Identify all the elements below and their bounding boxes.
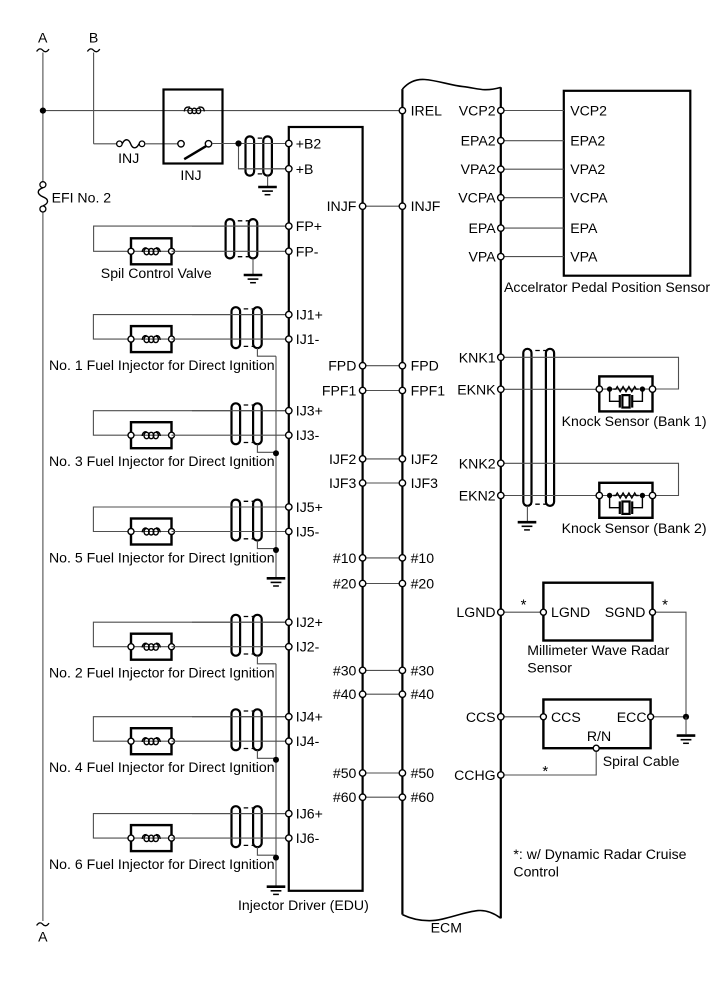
svg-text:VCP2: VCP2 bbox=[570, 103, 607, 119]
node A break squiggle (top) bbox=[37, 49, 49, 52]
injector No.5 coil bbox=[142, 528, 160, 535]
injector 2 terminal left bbox=[128, 644, 134, 650]
ground (injector shields bank1) bbox=[267, 578, 286, 586]
wire: IJ5+ loop bbox=[93, 507, 288, 532]
radar terminal SGND bbox=[650, 609, 656, 615]
ECM terminal KNK1 bbox=[498, 354, 504, 360]
svg-text:FPF1: FPF1 bbox=[411, 383, 446, 399]
noise filter FP pair bbox=[226, 219, 258, 258]
EDU terminal IJ2+ bbox=[286, 619, 292, 625]
wire: R/N to CCHG bbox=[501, 748, 596, 775]
svg-text:R/N: R/N bbox=[587, 728, 611, 744]
svg-text:EPA2: EPA2 bbox=[461, 133, 496, 149]
svg-text:LGND: LGND bbox=[551, 604, 590, 620]
injector 6 terminal left bbox=[128, 835, 134, 841]
svg-text:IJ6-: IJ6- bbox=[296, 830, 320, 846]
svg-text:ECC: ECC bbox=[617, 709, 647, 725]
Knock Sensor (Bank 2) box bbox=[599, 483, 652, 518]
wire: +B2 through filter bbox=[239, 143, 289, 145]
wire: IJ2+ loop bbox=[93, 622, 288, 647]
wire: through injector 3 bbox=[131, 434, 172, 436]
ECM terminal CCHG bbox=[498, 772, 504, 778]
svg-text:#20: #20 bbox=[411, 576, 435, 592]
junction knock sensor 2 right bbox=[640, 493, 645, 498]
svg-text:FPD: FPD bbox=[411, 358, 439, 374]
ECM terminal LGND bbox=[498, 609, 504, 615]
spiral cable terminal CCS bbox=[540, 714, 546, 720]
ECM terminal FPF1 bbox=[399, 387, 405, 393]
wire: down to ground bbox=[685, 717, 687, 734]
wire: through knock sensor 1 bbox=[599, 388, 652, 390]
wire: VCPA to pedal sensor bbox=[501, 197, 564, 199]
wire: knock shield drain bbox=[526, 506, 528, 521]
shielded cable knock sensors bbox=[523, 349, 554, 506]
svg-text:B: B bbox=[89, 30, 98, 46]
wire: IJF2 EDU to ECM bbox=[363, 458, 403, 460]
spiral cable terminal R/N bbox=[593, 745, 599, 751]
wire: harness A upper segment bbox=[42, 53, 44, 185]
EDU terminal FP+ bbox=[286, 223, 292, 229]
injector No.6 coil bbox=[142, 835, 160, 842]
svg-text:#30: #30 bbox=[333, 662, 357, 678]
svg-text:IJF3: IJF3 bbox=[411, 475, 439, 491]
fuel injector No.1 coil box bbox=[131, 326, 172, 352]
svg-text:IJ1+: IJ1+ bbox=[296, 307, 323, 323]
svg-text:ECM: ECM bbox=[431, 920, 462, 936]
wire: INJF EDU to ECM bbox=[363, 205, 403, 207]
svg-text:VCP2: VCP2 bbox=[459, 103, 496, 119]
knock sensor 2 terminal left bbox=[596, 492, 602, 498]
ECM terminal EKNK bbox=[498, 386, 504, 392]
EDU terminal #20 bbox=[359, 580, 365, 586]
Millimeter Wave Radar Sensor box bbox=[543, 583, 652, 641]
junction knock sensor 1 right bbox=[640, 386, 645, 391]
ECM terminal #50 bbox=[399, 770, 405, 776]
svg-text:FP+: FP+ bbox=[296, 218, 322, 234]
EDU terminal #10 bbox=[359, 555, 365, 561]
EDU terminal IJ1+ bbox=[286, 311, 292, 317]
ECM terminal EKN2 bbox=[498, 492, 504, 498]
noise filter IJ6 pair bbox=[232, 806, 262, 847]
wire: FPF1 EDU to ECM bbox=[363, 390, 403, 392]
injector 5 terminal right bbox=[169, 529, 175, 535]
wire: IJ1- to EDU bbox=[172, 338, 289, 340]
EDU terminal IJ3- bbox=[286, 432, 292, 438]
svg-text:EPA: EPA bbox=[570, 220, 598, 236]
wire: EPA to pedal sensor bbox=[501, 227, 564, 229]
wire: IJ3- to EDU bbox=[172, 434, 289, 436]
svg-text:IJ5-: IJ5- bbox=[296, 524, 320, 540]
ECM terminal #60 bbox=[399, 794, 405, 800]
noise filter IJ4 pair bbox=[232, 709, 262, 750]
ECM terminal #40 bbox=[399, 691, 405, 697]
spil valve terminal left bbox=[128, 248, 134, 254]
svg-text:#50: #50 bbox=[411, 765, 435, 781]
wire: relay to +B2 bbox=[212, 143, 289, 145]
injector No.4 coil bbox=[142, 738, 160, 745]
svg-text:VCPA: VCPA bbox=[570, 190, 608, 206]
svg-text:Control: Control bbox=[513, 864, 558, 880]
svg-text:IJF2: IJF2 bbox=[329, 451, 357, 467]
svg-text:CCS: CCS bbox=[551, 709, 581, 725]
svg-text:INJF: INJF bbox=[327, 198, 357, 214]
fuel injector No.2 coil box bbox=[131, 634, 172, 660]
wire: IJ4+ to EDU (through filter) bbox=[192, 716, 289, 718]
wire: #40 EDU to ECM bbox=[363, 693, 403, 695]
EDU terminal #50 bbox=[359, 770, 365, 776]
svg-text:Knock Sensor (Bank 2): Knock Sensor (Bank 2) bbox=[562, 520, 707, 536]
ground (FP filter shield) bbox=[244, 275, 263, 283]
fuse EFI No. 2 bbox=[38, 182, 47, 212]
wire: fuse INJ to relay switch bbox=[145, 143, 178, 145]
svg-text:IJ4-: IJ4- bbox=[296, 733, 320, 749]
spiral cable terminal ECC bbox=[648, 714, 654, 720]
svg-text:Injector Driver (EDU): Injector Driver (EDU) bbox=[238, 897, 369, 913]
piezo element knock sensor 2 bbox=[610, 496, 643, 515]
EDU terminal IJ5+ bbox=[286, 504, 292, 510]
knock sensor 1 terminal right bbox=[649, 386, 655, 392]
ECM terminal #20 bbox=[399, 580, 405, 586]
wire: battery feed to IREL bbox=[43, 110, 400, 112]
svg-text:INJF: INJF bbox=[411, 198, 441, 214]
ECM terminal FPD bbox=[399, 363, 405, 369]
injector 6 terminal right bbox=[169, 835, 175, 841]
EDU terminal IJ4- bbox=[286, 738, 292, 744]
svg-text:INJ: INJ bbox=[180, 167, 201, 183]
EDU terminal +B bbox=[286, 166, 292, 172]
fuel injector No.6 coil box bbox=[131, 825, 172, 851]
svg-text:No. 2 Fuel Injector for Direct: No. 2 Fuel Injector for Direct Ignition bbox=[49, 665, 275, 681]
ECM terminal INJF bbox=[399, 203, 405, 209]
injector 2 terminal right bbox=[169, 644, 175, 650]
node B break squiggle (top) bbox=[87, 49, 99, 52]
noise filter IJ5 pair bbox=[232, 500, 262, 541]
svg-text:FP-: FP- bbox=[296, 243, 319, 259]
ECM terminal KNK2 bbox=[498, 460, 504, 466]
wire: #30 EDU to ECM bbox=[363, 669, 403, 671]
junction on line A bbox=[40, 108, 46, 114]
wire: #20 EDU to ECM bbox=[363, 583, 403, 585]
EDU terminal IJ6+ bbox=[286, 810, 292, 816]
wire: IJ3+ loop bbox=[93, 411, 288, 436]
injector 1 terminal left bbox=[128, 336, 134, 342]
wire: harness B vertical bbox=[93, 53, 95, 144]
wire: FP- to EDU bbox=[172, 250, 289, 252]
wire: through injector 2 bbox=[131, 646, 172, 648]
wire: IJ5 shield drain bbox=[257, 541, 276, 549]
radar terminal LGND bbox=[540, 609, 546, 615]
wire: VPA to pedal sensor bbox=[501, 256, 564, 258]
ECM box outline bbox=[402, 79, 500, 920]
wire: ECC to ground node bbox=[651, 716, 686, 718]
ECM terminal IJF2 bbox=[399, 456, 405, 462]
ECM terminal #30 bbox=[399, 667, 405, 673]
svg-text:IJ2-: IJ2- bbox=[296, 639, 320, 655]
svg-text:IJ5+: IJ5+ bbox=[296, 499, 323, 515]
spil valve terminal right bbox=[169, 248, 175, 254]
relay switch contact (left) bbox=[178, 141, 184, 147]
wire: IJ1+ loop bbox=[93, 315, 288, 340]
svg-text:A: A bbox=[38, 929, 48, 945]
ECM terminal VPA2 bbox=[498, 166, 504, 172]
ground (SGND/ECC) bbox=[677, 736, 696, 744]
svg-text:*: w/ Dynamic Radar Cruise: *: w/ Dynamic Radar Cruise bbox=[513, 846, 686, 862]
ECM terminal IJF3 bbox=[399, 480, 405, 486]
junction ECC/SGND ground bbox=[683, 714, 689, 720]
svg-text:EKNK: EKNK bbox=[457, 381, 496, 397]
EDU terminal IJ1- bbox=[286, 336, 292, 342]
Knock Sensor (Bank 1) box bbox=[599, 376, 652, 411]
ECM terminal #10 bbox=[399, 555, 405, 561]
svg-text:*: * bbox=[662, 596, 668, 613]
relay INJ box bbox=[164, 90, 223, 164]
svg-text:No. 5 Fuel Injector for Direct: No. 5 Fuel Injector for Direct Ignition bbox=[49, 550, 275, 566]
wire: shield drain bus (bank1) bbox=[275, 356, 277, 577]
svg-text:IJ3-: IJ3- bbox=[296, 427, 320, 443]
wire: IJ1+ to EDU (through filter) bbox=[192, 314, 289, 316]
wire: CCS to spiral cable bbox=[501, 716, 544, 718]
svg-text:IJ1-: IJ1- bbox=[296, 331, 320, 347]
svg-text:EFI No. 2: EFI No. 2 bbox=[52, 190, 112, 206]
svg-text:IJ2+: IJ2+ bbox=[296, 614, 323, 630]
ECM terminal EPA2 bbox=[498, 138, 504, 144]
svg-text:EPA: EPA bbox=[468, 220, 496, 236]
EDU terminal #40 bbox=[359, 691, 365, 697]
svg-text:Spil Control Valve: Spil Control Valve bbox=[101, 265, 212, 281]
ECM terminal VPA bbox=[498, 253, 504, 259]
ground (knock shield) bbox=[518, 522, 537, 530]
svg-text:SGND: SGND bbox=[605, 604, 646, 620]
svg-text:#10: #10 bbox=[411, 550, 435, 566]
svg-text:VPA: VPA bbox=[570, 249, 598, 265]
wire: through knock sensor 2 bbox=[599, 495, 652, 497]
wire: IJ5+ to EDU (through filter) bbox=[192, 506, 289, 508]
svg-text:#10: #10 bbox=[333, 550, 357, 566]
noise filter IJ1 pair bbox=[232, 307, 262, 348]
noise filter IJ2 pair bbox=[232, 615, 262, 656]
wire: IJF3 EDU to ECM bbox=[363, 482, 403, 484]
fuse INJ bbox=[117, 140, 145, 148]
wire: IJ1 shield drain bbox=[257, 348, 276, 356]
EDU terminal IJF3 bbox=[359, 480, 365, 486]
wire: through injector 1 bbox=[131, 338, 172, 340]
svg-text:No. 6 Fuel Injector for Direct: No. 6 Fuel Injector for Direct Ignition bbox=[49, 856, 275, 872]
knock sensor 1 terminal left bbox=[596, 386, 602, 392]
svg-text:INJ: INJ bbox=[118, 150, 139, 166]
svg-text:#20: #20 bbox=[333, 576, 357, 592]
wire: KNK1 loop bbox=[501, 357, 679, 389]
noise filter +B pair bbox=[246, 136, 272, 175]
junction drain IJ4 bbox=[273, 757, 279, 763]
svg-text:#60: #60 bbox=[333, 789, 357, 805]
wire: FP+ loop bbox=[94, 226, 289, 251]
svg-text:CCS: CCS bbox=[466, 709, 496, 725]
EDU terminal FPF1 bbox=[359, 387, 365, 393]
wire: SGND to ground bbox=[653, 612, 687, 717]
EDU terminal IJF2 bbox=[359, 456, 365, 462]
svg-text:KNK2: KNK2 bbox=[459, 455, 496, 471]
svg-text:IREL: IREL bbox=[411, 103, 442, 119]
wire: IJ3+ to EDU (through filter) bbox=[192, 410, 289, 412]
wire: #10 EDU to ECM bbox=[363, 557, 403, 559]
wire: FP+ to EDU (through filter) bbox=[192, 225, 289, 227]
Accelerator Pedal Position Sensor box bbox=[564, 91, 691, 276]
EDU terminal #30 bbox=[359, 667, 365, 673]
wire: #50 EDU to ECM bbox=[363, 772, 403, 774]
wire: IJ4+ loop bbox=[93, 717, 288, 742]
svg-text:Knock Sensor (Bank 1): Knock Sensor (Bank 1) bbox=[562, 413, 707, 429]
wire: VPA2 to pedal sensor bbox=[501, 168, 564, 170]
junction drain IJ3 bbox=[273, 450, 279, 456]
wire: IJ4 shield drain bbox=[257, 750, 276, 758]
svg-text:#40: #40 bbox=[333, 686, 357, 702]
junction knock sensor 2 left bbox=[607, 493, 612, 498]
wire: IJ6- to EDU bbox=[172, 837, 289, 839]
svg-text:VPA2: VPA2 bbox=[570, 161, 605, 177]
knock sensor 2 terminal right bbox=[649, 492, 655, 498]
svg-text:#50: #50 bbox=[333, 765, 357, 781]
junction drain IJ6 bbox=[273, 855, 279, 861]
EDU terminal IJ2- bbox=[286, 644, 292, 650]
svg-text:VCPA: VCPA bbox=[458, 190, 496, 206]
wire: VCP2 to pedal sensor bbox=[501, 110, 564, 112]
EDU terminal INJF bbox=[359, 203, 365, 209]
svg-text:Millimeter Wave Radar: Millimeter Wave Radar bbox=[527, 642, 669, 658]
junction drain IJ5 bbox=[273, 547, 279, 553]
svg-text:FPF1: FPF1 bbox=[322, 383, 357, 399]
wire: shield drain bus (bank2) bbox=[275, 664, 277, 886]
junction knock sensor 1 left bbox=[607, 386, 612, 391]
svg-text:IJ4+: IJ4+ bbox=[296, 709, 323, 725]
svg-text:KNK1: KNK1 bbox=[459, 349, 496, 365]
node A break squiggle (bottom) bbox=[37, 923, 49, 926]
noise filter IJ3 pair bbox=[232, 403, 262, 444]
wire: EKNK bbox=[501, 388, 600, 390]
wire: IJ2- to EDU bbox=[172, 646, 289, 648]
EDU terminal FP- bbox=[286, 248, 292, 254]
wire: IJ6 shield drain bbox=[257, 847, 276, 855]
Injector Driver EDU box bbox=[289, 127, 363, 891]
ECM terminal CCS bbox=[498, 714, 504, 720]
svg-text:IJ6+: IJ6+ bbox=[296, 806, 323, 822]
relay switch blade bbox=[184, 146, 206, 159]
svg-text:IJF3: IJF3 bbox=[329, 475, 357, 491]
svg-text:*: * bbox=[521, 596, 527, 613]
EDU terminal IJ4+ bbox=[286, 714, 292, 720]
svg-text:Spiral Cable: Spiral Cable bbox=[603, 753, 680, 769]
wire: IJ5- to EDU bbox=[172, 531, 289, 533]
wire: +B through filter bbox=[239, 168, 289, 170]
wire: IJ6+ loop bbox=[93, 814, 288, 839]
svg-text:IJF2: IJF2 bbox=[411, 451, 439, 467]
junction +B branch bbox=[235, 140, 241, 146]
wire: KNK2 loop bbox=[501, 463, 679, 495]
svg-text:Accelrator Pedal Position Sens: Accelrator Pedal Position Sensor bbox=[504, 279, 710, 295]
wire: #60 EDU to ECM bbox=[363, 796, 403, 798]
svg-text:EPA2: EPA2 bbox=[570, 133, 605, 149]
wire: FPD EDU to ECM bbox=[363, 365, 403, 367]
svg-text:CCHG: CCHG bbox=[454, 767, 496, 783]
wire: branch to +B bbox=[239, 144, 289, 169]
svg-text:#60: #60 bbox=[411, 789, 435, 805]
EDU terminal +B2 bbox=[286, 140, 292, 146]
ECM terminal IREL bbox=[399, 107, 405, 113]
Spiral Cable box bbox=[543, 700, 650, 749]
wire: harness A lower segment bbox=[42, 212, 44, 921]
EDU terminal #60 bbox=[359, 794, 365, 800]
svg-text:EKN2: EKN2 bbox=[459, 488, 496, 504]
wire: +B filter shield drain bbox=[267, 176, 269, 186]
svg-text:FPD: FPD bbox=[328, 358, 356, 374]
wire: LGND to radar bbox=[501, 611, 544, 613]
fuel injector No.4 coil box bbox=[131, 728, 172, 754]
ground (+B filter shield) bbox=[258, 187, 277, 195]
svg-text:*: * bbox=[542, 763, 548, 780]
injector 4 terminal right bbox=[169, 738, 175, 744]
injector 5 terminal left bbox=[128, 529, 134, 535]
ECM terminal EPA bbox=[498, 225, 504, 231]
svg-text:VPA: VPA bbox=[468, 249, 496, 265]
ECM terminal VCP2 bbox=[498, 107, 504, 113]
svg-text:No. 1 Fuel Injector for Direct: No. 1 Fuel Injector for Direct Ignition bbox=[49, 357, 275, 373]
piezo element knock sensor 1 bbox=[610, 389, 643, 408]
svg-text:No. 3 Fuel Injector for Direct: No. 3 Fuel Injector for Direct Ignition bbox=[49, 453, 275, 469]
wire: FP filter shield drain bbox=[252, 258, 254, 274]
wire: through injector 4 bbox=[131, 740, 172, 742]
svg-text:LGND: LGND bbox=[456, 604, 495, 620]
svg-text:IJ3+: IJ3+ bbox=[296, 403, 323, 419]
Spil Control Valve coil box bbox=[131, 238, 172, 264]
relay coil bbox=[184, 107, 204, 114]
fuel injector No.3 coil box bbox=[131, 422, 172, 448]
wire: through spil valve bbox=[131, 250, 172, 252]
injector 3 terminal left bbox=[128, 432, 134, 438]
resistor knock sensor 1 bbox=[613, 387, 638, 392]
svg-text:#40: #40 bbox=[411, 686, 435, 702]
wire: IJ2 shield drain bbox=[257, 656, 276, 664]
resistor knock sensor 2 bbox=[613, 493, 638, 498]
svg-text:VPA2: VPA2 bbox=[461, 161, 496, 177]
injector 1 terminal right bbox=[169, 336, 175, 342]
wire: B to fuse INJ bbox=[94, 143, 117, 145]
wire: IJ4- to EDU bbox=[172, 740, 289, 742]
EDU terminal IJ3+ bbox=[286, 408, 292, 414]
wire: IJ6+ to EDU (through filter) bbox=[192, 813, 289, 815]
wire: EPA2 to pedal sensor bbox=[501, 140, 564, 142]
injector No.1 coil bbox=[142, 336, 160, 343]
wire: through injector 6 bbox=[131, 837, 172, 839]
relay switch contact (right) bbox=[205, 141, 211, 147]
fuel injector No.5 coil box bbox=[131, 519, 172, 545]
injector 3 terminal right bbox=[169, 432, 175, 438]
ground (injector shields bank2) bbox=[267, 887, 286, 895]
svg-text:A: A bbox=[38, 30, 48, 46]
svg-text:Sensor: Sensor bbox=[527, 659, 572, 675]
injector No.3 coil bbox=[142, 432, 160, 439]
EDU terminal IJ6- bbox=[286, 835, 292, 841]
svg-text:+B: +B bbox=[296, 161, 314, 177]
svg-text:+B2: +B2 bbox=[296, 136, 322, 152]
EDU terminal FPD bbox=[359, 363, 365, 369]
wire: IJ2+ to EDU (through filter) bbox=[192, 621, 289, 623]
spil valve coil bbox=[142, 248, 160, 255]
injector No.2 coil bbox=[142, 643, 160, 650]
svg-text:#30: #30 bbox=[411, 662, 435, 678]
injector 4 terminal left bbox=[128, 738, 134, 744]
ECM terminal VCPA bbox=[498, 195, 504, 201]
EDU terminal IJ5- bbox=[286, 528, 292, 534]
wire: EKN2 bbox=[501, 495, 600, 497]
